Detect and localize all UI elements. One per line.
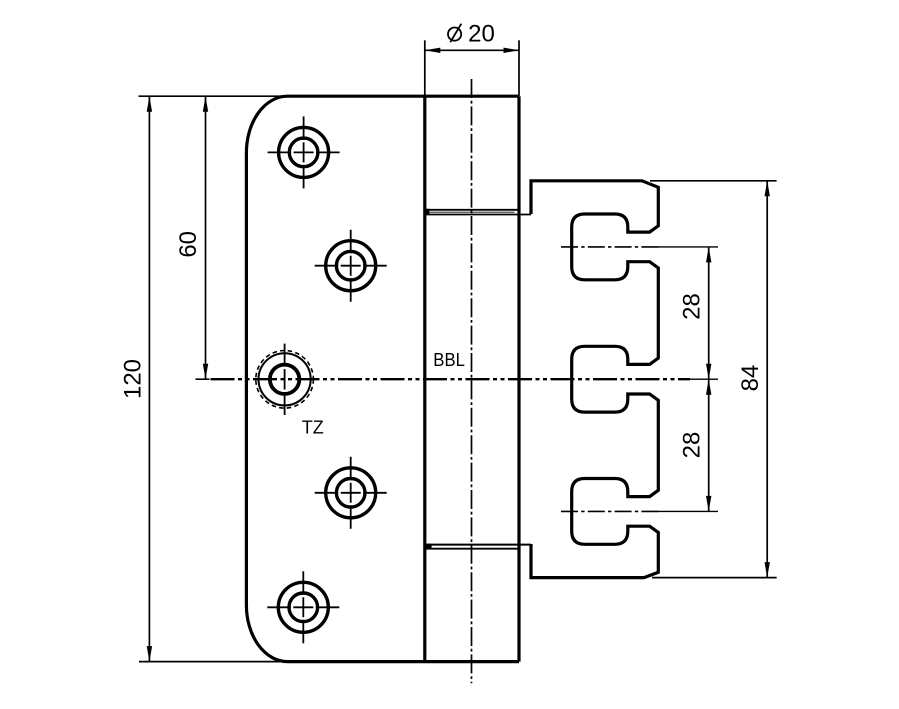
svg-text:60: 60 [175,231,202,258]
svg-text:TZ: TZ [302,418,324,438]
svg-text:BBL: BBL [433,350,465,370]
svg-text:28: 28 [678,293,705,320]
svg-text:84: 84 [737,365,764,392]
svg-text:20: 20 [468,20,495,47]
svg-text:120: 120 [119,359,146,399]
svg-text:28: 28 [678,432,705,459]
